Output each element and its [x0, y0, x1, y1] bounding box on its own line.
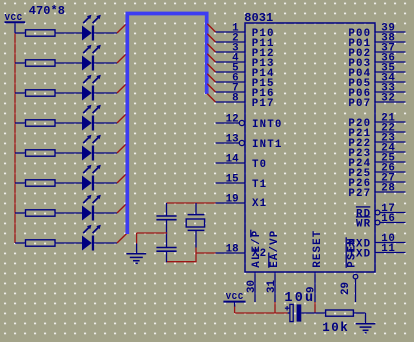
- svg-text:30: 30: [246, 280, 258, 293]
- wire - rail to resistor R2: [15, 62, 26, 64]
- wire - bus entry D5 (red diagonal): [117, 144, 126, 153]
- wire - R9 to ground: [353, 312, 365, 314]
- pin 5 (P14): [216, 71, 246, 73]
- wire - D1 cathode to bus: [94, 32, 117, 34]
- wire - ground drop (red): [136, 233, 138, 244]
- svg-text:8: 8: [232, 92, 238, 104]
- wire - pin9 to reset net (red): [314, 302, 316, 313]
- svg-text:19: 19: [226, 193, 239, 205]
- wire - R6 to LED D6: [55, 182, 82, 184]
- pin 21 (P20): [375, 121, 406, 123]
- svg-text:8031: 8031: [244, 11, 273, 25]
- wire - D4 cathode to bus: [94, 122, 117, 124]
- wire - C3 to R9: [301, 312, 325, 314]
- ground (crystal caps): [136, 244, 138, 254]
- LED D6: [82, 176, 92, 191]
- wire - bus entry D3 (red diagonal): [117, 84, 126, 93]
- pin 23 (P22): [375, 141, 406, 143]
- svg-text:P17: P17: [252, 98, 275, 110]
- LED D7: [82, 206, 92, 221]
- wire - R4 to LED D4: [55, 122, 82, 124]
- resistor R1 (470): [26, 30, 56, 36]
- wire - pin31 to VCC net (red): [274, 302, 276, 313]
- pin 10 (RXD): [375, 242, 406, 244]
- wire - D7 cathode to bus: [94, 212, 117, 214]
- LED D3: [82, 86, 92, 101]
- pin 25 (P24): [375, 161, 406, 163]
- wire - crystal to X2 node (red): [195, 248, 197, 254]
- capacitor C3 10u (electrolytic): [288, 312, 290, 314]
- LED D5: [82, 146, 92, 161]
- pin 29 (PSEN, inverted): [353, 274, 358, 279]
- svg-text:RESET: RESET: [312, 230, 324, 268]
- resistor R9 10k: [326, 310, 354, 316]
- wire - bus entry D2 (red diagonal): [117, 54, 126, 63]
- LED D1: [82, 26, 92, 41]
- wire - VCC down (red): [234, 307, 236, 314]
- svg-text:16: 16: [381, 213, 395, 225]
- resistor R2 (470): [26, 60, 56, 66]
- svg-text:13: 13: [226, 133, 239, 145]
- pin 12 (INT0, inverted): [216, 122, 240, 124]
- svg-text:14: 14: [226, 153, 239, 165]
- pin 9 (RESET): [314, 272, 316, 302]
- wire - bus entry pin 5 (red diagonal): [207, 64, 215, 72]
- pin 2 (P11): [216, 41, 246, 43]
- svg-text:11: 11: [381, 243, 395, 255]
- pin 38 (P01): [375, 41, 406, 43]
- pin 33 (P06): [375, 91, 406, 93]
- pin 27 (P26): [375, 181, 406, 183]
- pin 16 (WR, inverted): [375, 220, 380, 225]
- wire - VCC rail vertical (red): [14, 33, 16, 243]
- wire - rail to resistor R8: [15, 242, 26, 244]
- svg-text:18: 18: [226, 243, 239, 255]
- svg-text:10u: 10u: [284, 291, 315, 306]
- wire - bus entry pin 6 (red diagonal): [207, 74, 215, 82]
- pin 35 (P04): [375, 71, 406, 73]
- wire - jog to C2 bottom (red): [167, 261, 197, 263]
- wire - R7 to LED D7: [55, 212, 82, 214]
- svg-text:P07: P07: [348, 98, 371, 110]
- pin 7 (P16): [216, 91, 246, 93]
- pin 8 (P17): [216, 101, 246, 103]
- svg-text:31: 31: [266, 280, 278, 293]
- pin 26 (P25): [375, 171, 406, 173]
- resistor R7 (470): [26, 210, 56, 216]
- svg-text:470*8: 470*8: [29, 4, 65, 18]
- pin 13 (INT1, inverted): [216, 142, 240, 144]
- svg-text:X1: X1: [252, 198, 267, 210]
- pin 39 (P00): [375, 31, 406, 33]
- svg-text:P27: P27: [348, 188, 371, 200]
- wire - X2 node jog down (red): [195, 253, 197, 262]
- LED D4: [82, 116, 92, 131]
- pin 24 (P23): [375, 151, 406, 153]
- wire - bus entry D1 (red diagonal): [117, 24, 126, 33]
- pin 30 (ALE/P): [254, 272, 256, 302]
- resistor R5 (470): [26, 150, 56, 156]
- wire - rail to resistor R7: [15, 212, 26, 214]
- capacitor C2: [166, 233, 168, 248]
- wire - R3 to LED D3: [55, 92, 82, 94]
- pin 17 (RD, inverted): [375, 210, 380, 215]
- wire - X1 net (red): [167, 202, 216, 204]
- resistor R8 (470): [26, 240, 56, 246]
- capacitor C1: [166, 203, 168, 216]
- wire - rail to resistor R6: [15, 182, 26, 184]
- pin 37 (P02): [375, 51, 406, 53]
- resistor R4 (470): [26, 120, 56, 126]
- wire - bus entry D7 (red diagonal): [117, 204, 126, 213]
- pin 19 (X1): [216, 202, 246, 204]
- wire - D3 cathode to bus: [94, 92, 117, 94]
- pin 31 (EA/VP): [274, 272, 276, 302]
- pin 34 (P05): [375, 81, 406, 83]
- pin 11 (TXD): [375, 252, 406, 254]
- wire - bus entry D6 (red diagonal): [117, 174, 126, 183]
- LED D2: [82, 56, 92, 71]
- pin 1 (P10): [216, 31, 246, 33]
- svg-text:10k: 10k: [322, 321, 349, 335]
- svg-text:T0: T0: [252, 159, 267, 171]
- pin 28 (P27): [375, 191, 406, 193]
- wire - D5 cathode to bus: [94, 152, 117, 154]
- svg-text:EA/VP: EA/VP: [269, 230, 281, 268]
- pin 32 (P07): [375, 101, 406, 103]
- svg-text:INT0: INT0: [252, 119, 283, 131]
- svg-text:T1: T1: [252, 179, 267, 191]
- wire - D6 cathode to bus: [94, 182, 117, 184]
- svg-text:ALE/P: ALE/P: [251, 230, 263, 268]
- wire - rail to resistor R5: [15, 152, 26, 154]
- wire - R8 to LED D8: [55, 242, 82, 244]
- svg-text:INT1: INT1: [252, 139, 283, 151]
- wire - bus entry D4 (red diagonal): [117, 114, 126, 123]
- crystal Y1: [195, 203, 197, 214]
- svg-text:28: 28: [381, 182, 395, 194]
- wire - R5 to LED D5: [55, 152, 82, 154]
- svg-text:PSEN: PSEN: [346, 237, 358, 268]
- wire - bus entry pin 3 (red diagonal): [207, 44, 215, 52]
- pin 6 (P15): [216, 81, 246, 83]
- pin 18 (X2): [216, 252, 246, 254]
- wire - D8 cathode to bus: [94, 242, 117, 244]
- wire - rail to resistor R1: [15, 32, 26, 34]
- svg-text:32: 32: [381, 92, 395, 104]
- wire - X2 net (red): [196, 252, 216, 254]
- ground (reset divider): [356, 323, 376, 325]
- wire - bus entry pin 4 (red diagonal): [207, 54, 215, 62]
- resistor R3 (470): [26, 90, 56, 96]
- wire - bus entry pin 1 (red diagonal): [207, 24, 215, 32]
- LED D8: [82, 236, 92, 251]
- wire - bus entry pin 7 (red diagonal): [207, 84, 215, 92]
- wire - D2 cathode to bus: [94, 62, 117, 64]
- svg-text:15: 15: [226, 173, 239, 185]
- pin 3 (P12): [216, 51, 246, 53]
- resistor R6 (470): [26, 180, 56, 186]
- bus (P1 LED bus, thick blue): [127, 14, 206, 235]
- wire - VCC to C3 (red): [235, 312, 288, 314]
- wire - R2 to LED D2: [55, 62, 82, 64]
- wire - rail to resistor R3: [15, 92, 26, 94]
- wire - rail to resistor R4: [15, 122, 26, 124]
- svg-text:WR: WR: [356, 218, 371, 230]
- wire - bus entry D8 (red diagonal): [117, 234, 126, 243]
- pin 14 (T0): [216, 162, 246, 164]
- pin 22 (P21): [375, 131, 406, 133]
- wire - bus entry pin 2 (red diagonal): [207, 34, 215, 42]
- wire - bus entry pin 8 (red diagonal): [207, 94, 215, 102]
- pin 15 (T1): [216, 182, 246, 184]
- wire - R1 to LED D1: [55, 32, 82, 34]
- wire - caps midpoint to ground (red): [137, 232, 167, 234]
- pin 4 (P13): [216, 61, 246, 63]
- svg-text:29: 29: [340, 282, 352, 295]
- pin 36 (P03): [375, 61, 406, 63]
- IC U1 8031 body: [245, 23, 375, 272]
- svg-text:12: 12: [226, 113, 239, 125]
